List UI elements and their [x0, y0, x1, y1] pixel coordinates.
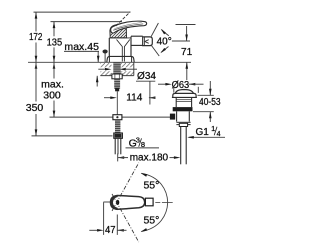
- svg-text:300: 300: [43, 89, 61, 101]
- svg-text:47: 47: [105, 225, 116, 236]
- svg-text:Ø63: Ø63: [172, 80, 190, 91]
- svg-text:G1: G1: [196, 127, 210, 138]
- svg-text:172: 172: [29, 32, 43, 43]
- svg-text:114: 114: [126, 93, 142, 104]
- svg-text:71: 71: [181, 47, 193, 58]
- svg-text:350: 350: [26, 102, 44, 114]
- svg-text:55°: 55°: [143, 215, 159, 227]
- svg-text:3: 3: [136, 135, 140, 144]
- svg-text:1: 1: [211, 126, 215, 133]
- svg-text:max.180: max.180: [130, 153, 169, 164]
- svg-text:40°: 40°: [157, 36, 172, 47]
- svg-text:135: 135: [47, 37, 63, 48]
- svg-text:Ø34: Ø34: [137, 71, 156, 82]
- svg-text:40-53: 40-53: [199, 97, 221, 108]
- svg-text:55°: 55°: [143, 180, 159, 192]
